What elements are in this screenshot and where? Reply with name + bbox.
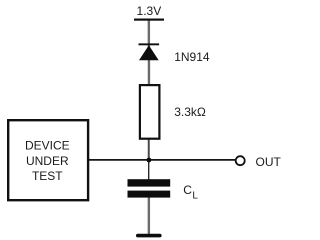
svg-text:1N914: 1N914 [174,50,210,64]
svg-text:OUT: OUT [256,155,282,169]
svg-text:C: C [183,183,192,197]
svg-text:DEVICE: DEVICE [25,139,70,153]
svg-text:UNDER: UNDER [26,154,69,168]
svg-text:L: L [192,191,198,202]
svg-text:1.3V: 1.3V [137,4,162,18]
svg-text:TEST: TEST [32,169,63,183]
svg-text:3.3kΩ: 3.3kΩ [174,105,206,119]
